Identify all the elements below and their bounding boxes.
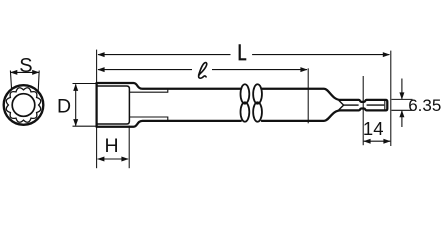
svg-text:6.35: 6.35 xyxy=(408,96,441,115)
svg-text:D: D xyxy=(57,95,71,117)
svg-text:S: S xyxy=(19,55,32,77)
svg-text:14: 14 xyxy=(363,118,384,139)
svg-text:H: H xyxy=(104,135,118,157)
